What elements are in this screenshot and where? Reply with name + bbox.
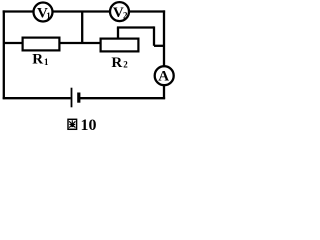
wire: left side of loop — [3, 10, 5, 99]
svg-text:1: 1 — [46, 11, 51, 21]
svg-text:10: 10 — [81, 117, 97, 134]
svg-text:2: 2 — [123, 60, 128, 70]
battery cell: long positive plate — [71, 88, 73, 108]
wire: slider run down jog — [153, 26, 155, 45]
wire: rheostat slider tap vertical — [117, 28, 119, 40]
wire: junction drop from top wire to R1-R2 node — [81, 12, 83, 44]
svg-text:A: A — [158, 69, 169, 85]
wire: top side of loop (battery + through meters) — [3, 10, 165, 12]
svg-text:R: R — [111, 55, 122, 71]
wire: right side of loop through ammeter — [163, 10, 165, 99]
wire: bottom side, right of battery — [79, 97, 165, 99]
svg-text:2: 2 — [123, 10, 128, 20]
wire: bottom side, left of battery — [3, 97, 71, 99]
ammeter A — [155, 66, 174, 85]
rheostat R2 — [101, 39, 139, 52]
voltmeter V1 — [34, 3, 53, 22]
resistor R1 — [23, 38, 60, 51]
voltmeter V2 — [110, 2, 129, 21]
svg-text:R: R — [32, 52, 43, 68]
wire: left frame to R1 left terminal — [4, 42, 23, 44]
caption: character tu (figure) drawn as glyph — [68, 119, 77, 129]
wire: R1 right terminal to R2 left terminal — [60, 42, 102, 44]
wire: jog to right side of loop — [154, 45, 165, 47]
battery cell: short negative plate — [77, 93, 80, 103]
svg-text:1: 1 — [44, 57, 49, 67]
wire: slider tap horizontal run — [117, 26, 154, 28]
